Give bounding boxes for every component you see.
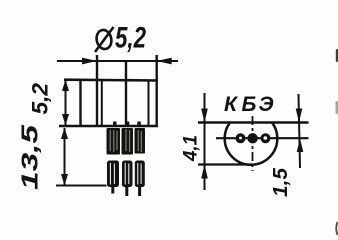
svg-text:Б: Б (242, 93, 257, 116)
svg-text:1,5: 1,5 (270, 167, 292, 197)
svg-text:5,2: 5,2 (28, 82, 53, 114)
svg-text:5,2: 5,2 (115, 22, 146, 55)
svg-text:Э: Э (259, 93, 274, 116)
svg-text:К: К (224, 93, 239, 116)
svg-text:13,5: 13,5 (17, 123, 43, 190)
svg-text:4,1: 4,1 (181, 135, 202, 162)
